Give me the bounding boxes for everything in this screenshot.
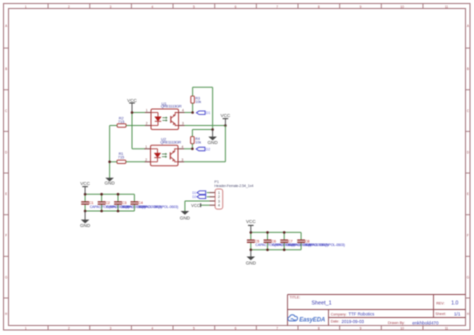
svg-text:7: 7 xyxy=(276,327,278,331)
svg-text:Sheet_1: Sheet_1 xyxy=(312,301,332,307)
svg-text:REV:: REV: xyxy=(436,301,444,305)
svg-text:5: 5 xyxy=(193,5,195,9)
svg-text:4: 4 xyxy=(182,145,184,149)
svg-text:4: 4 xyxy=(182,109,184,113)
svg-text:Header-Female-2.54_1x4: Header-Female-2.54_1x4 xyxy=(214,184,253,188)
svg-text:CAPACITOR(NPOL-0603): CAPACITOR(NPOL-0603) xyxy=(139,205,178,209)
svg-text:Date:: Date: xyxy=(331,320,340,324)
svg-text:VCC: VCC xyxy=(80,181,90,186)
svg-text:10: 10 xyxy=(400,5,404,9)
svg-text:11: 11 xyxy=(445,327,449,331)
svg-text:E: E xyxy=(5,192,7,196)
svg-text:2: 2 xyxy=(68,5,70,9)
svg-text:1.0: 1.0 xyxy=(451,301,458,307)
svg-text:1: 1 xyxy=(145,145,147,149)
svg-text:8: 8 xyxy=(318,327,320,331)
svg-text:GND: GND xyxy=(104,181,115,186)
svg-text:Drawn By:: Drawn By: xyxy=(388,321,405,325)
svg-text:GND: GND xyxy=(80,223,91,228)
svg-text:3: 3 xyxy=(110,327,112,331)
svg-text:D2: D2 xyxy=(192,195,196,199)
svg-text:F: F xyxy=(467,234,469,238)
svg-text:6: 6 xyxy=(235,327,237,331)
svg-text:6: 6 xyxy=(235,5,237,9)
svg-text:E: E xyxy=(467,192,469,196)
svg-text:9: 9 xyxy=(360,5,362,9)
svg-text:GND: GND xyxy=(246,260,257,265)
svg-text:enkhbold470: enkhbold470 xyxy=(412,321,439,326)
svg-text:4: 4 xyxy=(218,204,220,208)
svg-text:2: 2 xyxy=(145,158,147,162)
svg-text:715: 715 xyxy=(118,120,124,124)
svg-text:F: F xyxy=(5,234,7,238)
svg-text:TITLE:: TITLE: xyxy=(290,296,301,300)
svg-text:10: 10 xyxy=(400,327,404,331)
svg-text:715: 715 xyxy=(118,156,124,160)
svg-text:3: 3 xyxy=(182,158,184,162)
svg-text:1: 1 xyxy=(25,5,27,9)
svg-text:VCC: VCC xyxy=(191,203,200,208)
svg-text:10k: 10k xyxy=(195,100,201,104)
svg-text:2: 2 xyxy=(68,327,70,331)
svg-text:7: 7 xyxy=(276,5,278,9)
svg-text:Sheet:: Sheet: xyxy=(435,312,446,316)
svg-text:8: 8 xyxy=(318,5,320,9)
svg-text:4: 4 xyxy=(151,327,153,331)
svg-text:1/1: 1/1 xyxy=(454,312,461,317)
svg-text:9: 9 xyxy=(360,327,362,331)
svg-text:D2: D2 xyxy=(206,147,211,151)
svg-text:GND: GND xyxy=(207,140,218,145)
svg-text:11: 11 xyxy=(445,5,449,9)
svg-text:QRE1113GR: QRE1113GR xyxy=(161,104,182,109)
svg-text:GND: GND xyxy=(180,215,191,220)
svg-text:1: 1 xyxy=(146,109,148,113)
svg-text:2019-09-03: 2019-09-03 xyxy=(342,319,365,324)
svg-text:QRE1113GR: QRE1113GR xyxy=(160,139,181,144)
svg-text:1: 1 xyxy=(25,327,27,331)
svg-text:VCC: VCC xyxy=(127,98,137,103)
svg-text:EasyEDA: EasyEDA xyxy=(299,318,325,324)
svg-text:B: B xyxy=(5,67,7,71)
svg-text:CAPACITOR(NPOL-0603): CAPACITOR(NPOL-0603) xyxy=(306,243,345,247)
svg-text:D1: D1 xyxy=(206,111,211,115)
svg-text:3: 3 xyxy=(110,5,112,9)
svg-text:4: 4 xyxy=(151,5,153,9)
svg-text:3: 3 xyxy=(182,122,184,126)
svg-text:VCC: VCC xyxy=(246,219,256,224)
svg-text:2: 2 xyxy=(146,122,148,126)
svg-text:TTF Robotics: TTF Robotics xyxy=(349,312,375,317)
svg-text:B: B xyxy=(467,67,469,71)
svg-text:VCC: VCC xyxy=(221,113,231,118)
svg-text:10k: 10k xyxy=(195,141,201,145)
svg-text:5: 5 xyxy=(193,327,195,331)
svg-text:Company:: Company: xyxy=(331,312,347,316)
